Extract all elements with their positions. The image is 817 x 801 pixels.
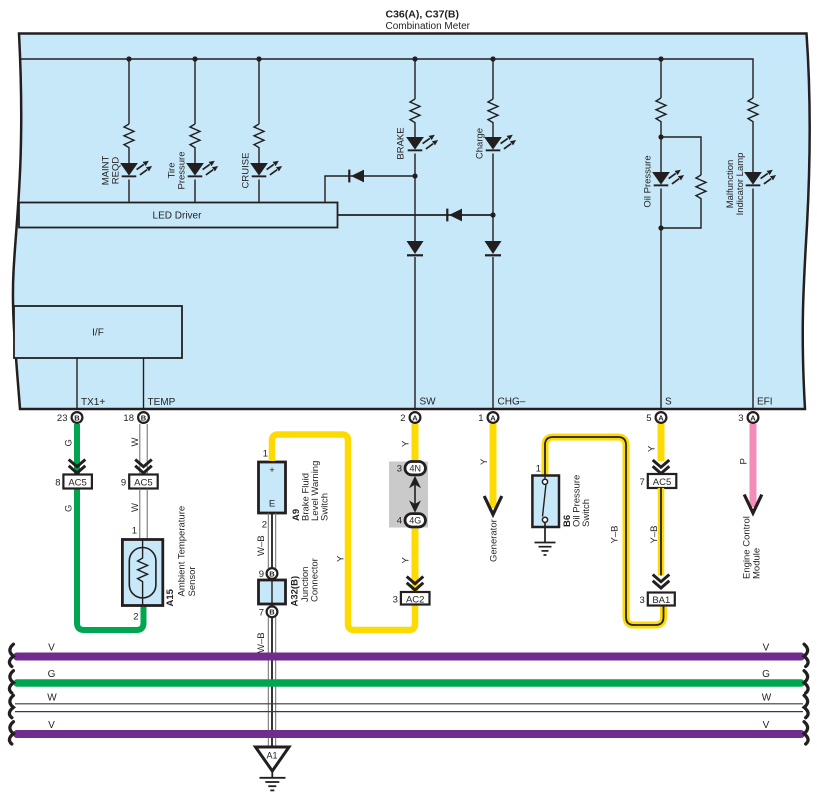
node dot bus/CRUISE <box>256 56 261 61</box>
switch B6 box <box>532 476 559 528</box>
pin 18 B (TEMP) <box>123 412 148 424</box>
svg-text:I/F: I/F <box>92 328 104 339</box>
squiggle V2 left <box>9 722 13 744</box>
ground A1 symbol <box>260 769 286 790</box>
svg-text:7: 7 <box>640 477 645 488</box>
wire top supply bus <box>20 59 753 98</box>
svg-text:B: B <box>141 413 147 422</box>
svg-text:A: A <box>412 413 418 422</box>
connector 8 AC5 <box>55 475 92 489</box>
wire Y-B B6 to BA1 <box>545 437 664 625</box>
diode D1 to LED driver <box>325 176 415 203</box>
svg-text:V: V <box>763 720 770 731</box>
ground B6 <box>535 522 556 555</box>
svg-text:Y: Y <box>479 458 490 465</box>
svg-text:C36(A), C37(B): C36(A), C37(B) <box>386 9 460 21</box>
svg-text:3: 3 <box>397 464 402 475</box>
svg-text:AC5: AC5 <box>653 477 671 488</box>
ground A1 triangle <box>256 747 290 771</box>
node dot bus/MAINT <box>126 56 131 61</box>
svg-text:Switch: Switch <box>581 499 592 527</box>
svg-text:W: W <box>130 503 141 512</box>
svg-text:2: 2 <box>133 612 138 623</box>
svg-text:G: G <box>64 505 75 512</box>
svg-text:1: 1 <box>263 449 268 460</box>
bus W white <box>15 704 803 712</box>
svg-text:Y: Y <box>401 440 412 447</box>
svg-text:V: V <box>763 643 770 654</box>
svg-text:7: 7 <box>259 607 264 618</box>
connector 3 4N <box>397 462 426 475</box>
node dot bus/TirePressure <box>192 56 197 61</box>
svg-text:Connector: Connector <box>310 558 321 602</box>
resistor oil parallel <box>696 175 706 200</box>
svg-text:+: + <box>269 465 275 476</box>
wire W white TEMP to AC5 <box>140 424 147 475</box>
svg-text:CHG–: CHG– <box>498 397 526 408</box>
wire BRAKE branch <box>414 59 416 409</box>
resistor Charge <box>488 99 498 124</box>
svg-text:9: 9 <box>121 478 126 489</box>
svg-text:5: 5 <box>646 413 651 424</box>
svg-text:P: P <box>739 458 750 464</box>
svg-text:Indicator Lamp: Indicator Lamp <box>735 153 746 216</box>
resistor MIL <box>748 98 758 123</box>
junction connector A32(B) box <box>259 580 286 604</box>
svg-text:4: 4 <box>397 516 402 527</box>
svg-text:W–B: W–B <box>256 632 267 653</box>
svg-text:CRUISE: CRUISE <box>240 153 251 189</box>
svg-text:A: A <box>490 413 496 422</box>
svg-text:Y: Y <box>336 555 347 562</box>
svg-text:G: G <box>48 669 56 680</box>
connector 4 4G <box>397 514 426 527</box>
svg-text:Switch: Switch <box>320 493 331 521</box>
svg-text:8: 8 <box>55 478 60 489</box>
pin 3 A (EFI) <box>738 412 758 424</box>
arrow chevron green <box>69 460 86 474</box>
resistor MAINT REQD <box>124 124 134 149</box>
arrow chevron BA1 <box>653 575 670 589</box>
LED Oil Pressure <box>652 170 684 187</box>
svg-text:W: W <box>762 693 772 704</box>
arrow chevron white <box>135 460 152 474</box>
arrow chevron S AC5 <box>653 460 670 474</box>
wire Y yellow CHG- to Generator <box>490 424 497 508</box>
squiggle W left <box>9 695 13 717</box>
svg-text:A: A <box>658 413 664 422</box>
svg-text:S: S <box>665 397 672 408</box>
switch A9 box <box>259 462 286 513</box>
pin 1 A (CHG-) <box>478 412 498 424</box>
svg-text:SW: SW <box>420 397 437 408</box>
svg-text:Y: Y <box>401 557 412 564</box>
svg-text:1: 1 <box>478 413 483 424</box>
wire I/F to TX1+ <box>76 358 78 409</box>
bus G green <box>17 679 801 687</box>
svg-text:W: W <box>130 438 141 447</box>
node dot bus/Charge <box>490 56 495 61</box>
wire Tire Pressure branch <box>194 59 196 203</box>
svg-text:Combination Meter: Combination Meter <box>386 21 471 32</box>
resistor Oil Pressure <box>656 98 666 123</box>
connector 3 BA1 <box>640 593 675 606</box>
arrow to Generator <box>484 496 502 515</box>
squiggle V2 right <box>804 722 808 744</box>
wire oil parallel resistor branch <box>661 137 701 228</box>
LED MIL <box>744 170 776 187</box>
svg-text:3: 3 <box>738 413 743 424</box>
wire P pink EFI to ECM <box>750 424 757 507</box>
svg-text:2: 2 <box>400 413 405 424</box>
svg-text:AC5: AC5 <box>134 478 152 489</box>
LED MAINT REQD <box>120 161 152 178</box>
wire Charge branch <box>492 59 494 409</box>
svg-text:TEMP: TEMP <box>148 397 176 408</box>
pin 2 A (SW) <box>400 412 420 424</box>
svg-text:Generator: Generator <box>489 519 500 562</box>
svg-text:Y–B: Y–B <box>610 526 621 544</box>
svg-text:3: 3 <box>640 595 645 606</box>
arrow chevron AC2 <box>407 577 424 591</box>
wire Y yellow SW pin to 4N <box>412 424 419 463</box>
svg-text:4G: 4G <box>409 516 421 526</box>
svg-text:A: A <box>750 413 756 422</box>
wire LED driver right to Charge <box>338 214 494 216</box>
svg-text:Pressure: Pressure <box>176 151 187 189</box>
svg-text:Y–B: Y–B <box>649 526 660 544</box>
switch contacts B6 <box>542 476 547 523</box>
thermistor capsule <box>129 548 156 599</box>
wire W white AC5 to A15 <box>140 489 147 540</box>
svg-text:1: 1 <box>536 464 541 475</box>
junction pin 9 B A32 <box>259 568 278 580</box>
svg-text:A32(B): A32(B) <box>290 576 301 607</box>
op-amp I/F block <box>14 306 182 358</box>
resistor Tire Pressure <box>190 124 200 149</box>
svg-text:BA1: BA1 <box>652 595 670 606</box>
wire W-B A9 to junction <box>268 513 275 568</box>
svg-text:23: 23 <box>57 413 68 424</box>
svg-text:LED Driver: LED Driver <box>153 211 203 222</box>
arrow to ECM <box>744 495 762 514</box>
svg-text:E: E <box>269 499 275 510</box>
svg-text:Oil Pressure: Oil Pressure <box>643 155 654 207</box>
svg-text:3: 3 <box>393 594 398 605</box>
LED BRAKE <box>406 135 438 152</box>
node dot bus/BRAKE <box>412 56 417 61</box>
svg-text:EFI: EFI <box>757 397 773 408</box>
pin 23 B (TX1+) <box>57 412 82 424</box>
resistor CRUISE <box>254 124 264 149</box>
svg-text:1: 1 <box>132 526 137 537</box>
wire I/F to TEMP <box>143 358 145 409</box>
sensor A15 box <box>122 540 162 606</box>
svg-text:A1: A1 <box>267 751 278 761</box>
svg-text:TX1+: TX1+ <box>81 397 105 408</box>
resistor BRAKE <box>410 99 420 124</box>
svg-text:G: G <box>762 669 770 680</box>
connector 9 AC5 <box>121 475 158 489</box>
node dot bus/OilPressure <box>658 56 663 61</box>
arrow link 4N-4G <box>409 476 421 513</box>
svg-text:Sensor: Sensor <box>187 566 198 596</box>
svg-text:V: V <box>48 720 55 731</box>
junction pin 7 B A32 <box>259 606 278 618</box>
svg-text:Ambient Temperature: Ambient Temperature <box>177 506 188 597</box>
svg-text:2: 2 <box>262 520 267 531</box>
wire Y yellow S pin to AC5 <box>658 424 665 461</box>
LED Charge <box>484 135 516 152</box>
svg-text:V: V <box>48 643 55 654</box>
LED Driver U1 <box>19 203 338 228</box>
squiggle V1 left <box>9 644 13 666</box>
wire W-B junction to ground <box>268 617 275 748</box>
svg-text:W–B: W–B <box>256 535 267 556</box>
bus V purple 1 <box>17 653 801 661</box>
squiggle V1 right <box>804 644 808 666</box>
thermistor element <box>138 540 148 606</box>
LED CRUISE <box>250 161 282 178</box>
node dot Charge/D3 <box>490 212 495 217</box>
svg-text:Charge: Charge <box>475 128 486 159</box>
wire Y yellow A9 loop to AC2 <box>272 435 415 631</box>
svg-text:G: G <box>64 439 75 446</box>
svg-text:AC2: AC2 <box>406 594 424 605</box>
node dot oil bottom <box>658 225 663 230</box>
svg-text:AC5: AC5 <box>68 478 86 489</box>
wire Oil Pressure branch <box>660 59 662 409</box>
svg-text:4N: 4N <box>409 464 421 474</box>
diode D4 Charge low <box>485 241 502 256</box>
node dot oil top <box>658 134 663 139</box>
wire CRUISE branch <box>258 59 260 203</box>
bus V purple 2 <box>17 730 801 738</box>
LED Tire Pressure <box>186 161 218 178</box>
wire Y 4G to AC2 <box>412 529 419 593</box>
svg-text:BRAKE: BRAKE <box>396 127 407 159</box>
pin 5 A (S) <box>646 412 666 424</box>
svg-text:9: 9 <box>259 569 264 580</box>
svg-text:Module: Module <box>752 548 763 579</box>
svg-text:Y: Y <box>647 445 658 452</box>
svg-text:B: B <box>74 413 80 422</box>
svg-text:B: B <box>269 569 275 578</box>
squiggle W right <box>804 695 808 717</box>
connector block 4N/4G gray <box>389 462 428 528</box>
wire MAINT REQD branch <box>128 59 130 203</box>
svg-text:W: W <box>47 693 57 704</box>
svg-text:18: 18 <box>123 413 134 424</box>
svg-text:A15: A15 <box>165 588 176 606</box>
wire G green TX1+ to AC5 to A15 <box>77 424 144 630</box>
diode D2 BRAKE low <box>407 241 424 256</box>
squiggle G left <box>9 671 13 693</box>
connector 7 AC5 <box>640 474 677 488</box>
diode D3 to LED driver <box>338 214 494 216</box>
node dot BRAKE/D1 <box>412 173 417 178</box>
wire Y-B AC5 to BA1 <box>658 488 665 576</box>
svg-text:REQD: REQD <box>110 157 121 185</box>
combination meter box C36/C37 <box>13 34 810 410</box>
svg-text:B: B <box>269 608 275 617</box>
connector 3 AC2 <box>393 592 430 605</box>
wire MIL branch <box>752 123 754 409</box>
squiggle G right <box>804 671 808 693</box>
